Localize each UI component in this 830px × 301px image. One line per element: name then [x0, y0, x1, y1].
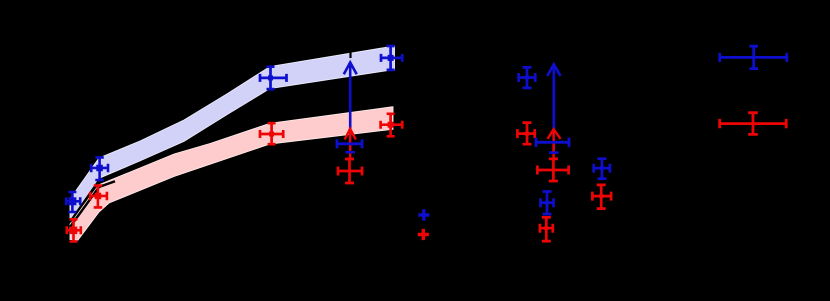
data point blue 13 TeV: [381, 46, 402, 70]
blue limit horizontal bar (right panel): [536, 138, 569, 147]
right panel blue point 1: [519, 67, 536, 88]
theory band sigma_W (light blue): [70, 46, 395, 220]
far right red point: [720, 113, 787, 135]
blue upper-limit arrow (left panel): [344, 63, 357, 153]
legend marker red plus: [418, 229, 429, 240]
data point blue 2.76 TeV: [66, 192, 80, 212]
red limit arrow (right panel): [548, 129, 561, 160]
right panel red point 4: [592, 185, 611, 209]
right panel red point 3: [540, 217, 553, 241]
black theory tick above arrow: [349, 52, 351, 59]
data point red 2.76 TeV: [67, 219, 81, 241]
right panel red point 2 (below arrow): [537, 159, 568, 181]
theory central line (upper, black): [70, 179, 100, 222]
blue upper-limit arrow (right panel): [547, 64, 560, 153]
data point red 5 TeV: [90, 186, 107, 208]
data point red 7 TeV: [260, 123, 283, 144]
right panel blue point 3: [541, 192, 554, 215]
blue arrow bottom serif (left panel): [345, 151, 355, 154]
right panel blue point 4: [594, 159, 610, 179]
theory central line (lower, black): [70, 181, 115, 227]
red limit arrow (left panel): [345, 129, 356, 160]
far right blue point: [720, 46, 787, 68]
data point blue 7 TeV: [260, 67, 287, 89]
theory band sigma_Z (pink): [70, 107, 393, 240]
red limit data point (left panel): [338, 159, 362, 183]
right panel red point 1: [517, 123, 534, 145]
legend marker blue plus: [418, 209, 429, 220]
data point blue 5 TeV: [91, 157, 108, 180]
blue limit horizontal bar (left panel): [337, 139, 362, 148]
blue arrow bottom serif (right panel): [549, 151, 558, 154]
data point red 13 TeV: [381, 114, 403, 137]
